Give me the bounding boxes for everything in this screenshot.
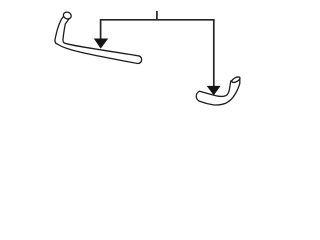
hose 1 (left hose, outlined tube body): [55, 15, 142, 63]
hose 2 (right hose, outlined tube body): [196, 78, 240, 105]
arrowhead to hose 2: [207, 86, 221, 96]
callout bracket (horizontal with two verticals): [101, 20, 214, 87]
hose 1 open-end ellipse: [62, 11, 72, 20]
callout tick mark: [156, 11, 158, 20]
hose 2 open-end ellipse: [231, 76, 241, 84]
arrowhead to hose 1: [94, 39, 108, 49]
